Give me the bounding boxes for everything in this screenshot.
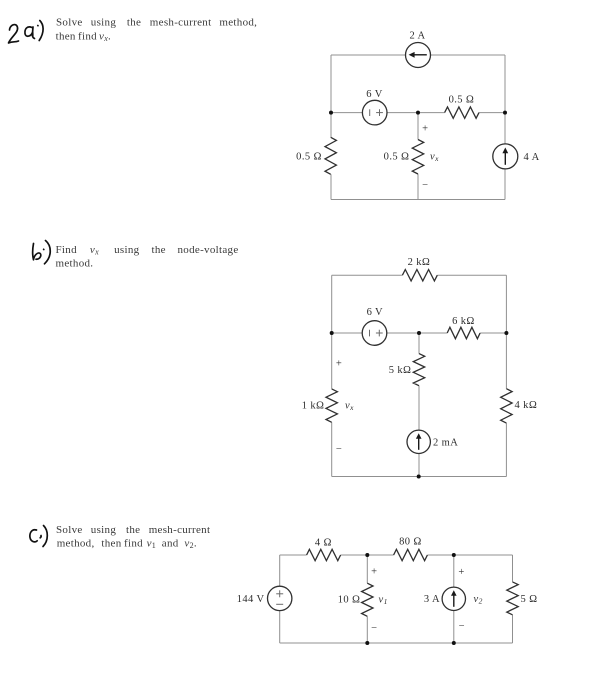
svg-text:+: + bbox=[371, 566, 377, 577]
wire: center branch lower bbox=[417, 174, 419, 200]
svg-text:3 A: 3 A bbox=[424, 594, 440, 605]
wire: top rail left of 2A bbox=[331, 54, 405, 56]
svg-text:10 Ω: 10 Ω bbox=[338, 594, 361, 605]
wire: center branch lower bbox=[418, 453, 420, 476]
wire: branch 3A upper bbox=[453, 555, 455, 587]
resistor 1k (b left, vx) bbox=[302, 358, 354, 455]
wire: top rail right of 2A bbox=[431, 54, 505, 56]
wire: right vertical upper bbox=[504, 55, 506, 144]
resistor 0.5ohm (a, left vertical) bbox=[296, 137, 336, 174]
wire: left vertical upper bbox=[279, 555, 281, 586]
svg-text:5 kΩ: 5 kΩ bbox=[389, 365, 412, 376]
svg-text:4 kΩ: 4 kΩ bbox=[515, 400, 538, 411]
svg-text:method.: method. bbox=[56, 258, 94, 270]
node left middle dot bbox=[329, 111, 333, 115]
resistor 6k (b) bbox=[447, 316, 480, 339]
svg-text:−: − bbox=[422, 180, 428, 191]
svg-text:6 kΩ: 6 kΩ bbox=[452, 316, 475, 327]
voltage source 6V (a) bbox=[362, 89, 387, 125]
resistor 80ohm (c) bbox=[394, 537, 428, 561]
wire: right vertical lower bbox=[512, 615, 514, 643]
svg-text:vx: vx bbox=[345, 401, 354, 413]
svg-text:thenfindvx.: thenfindvx. bbox=[56, 31, 112, 44]
node right middle dot bbox=[503, 111, 507, 115]
resistor 2k (b top) bbox=[402, 257, 437, 281]
node dots top rail (c) bbox=[365, 553, 369, 557]
svg-text:−: − bbox=[459, 621, 465, 632]
wire: middle rail left bbox=[331, 112, 362, 114]
handwritten label 2 a.) bbox=[9, 21, 44, 44]
wire: left vertical upper bbox=[330, 55, 332, 137]
wire: center branch upper bbox=[417, 113, 419, 140]
resistor 0.5ohm (a, center branch, vx) bbox=[384, 124, 439, 191]
svg-text:5 Ω: 5 Ω bbox=[521, 594, 538, 605]
wire: middle rail right bbox=[480, 332, 506, 334]
voltage source 6V (b) bbox=[362, 307, 387, 345]
wire: left vertical upper bbox=[331, 275, 333, 389]
svg-text:4 Ω: 4 Ω bbox=[315, 538, 332, 549]
resistor 4ohm (c) bbox=[307, 538, 341, 561]
wire: top rail seg2 bbox=[341, 554, 394, 556]
wire: branch v1 upper bbox=[366, 555, 368, 583]
svg-text:+: + bbox=[422, 124, 428, 135]
voltage source 144V bbox=[237, 586, 292, 610]
node dots middle rail (b) bbox=[330, 331, 334, 335]
node dots bottom rail (c) bbox=[365, 641, 369, 645]
wire: top rail left of 2k bbox=[332, 274, 403, 276]
wire: right vertical lower bbox=[505, 423, 507, 476]
svg-text:6 V: 6 V bbox=[366, 89, 382, 100]
svg-text:+: + bbox=[458, 567, 464, 578]
wire: left vertical lower bbox=[330, 174, 332, 199]
resistor 5ohm (c right) bbox=[507, 582, 538, 615]
node A middle junction dot bbox=[416, 111, 420, 115]
svg-text:6 V: 6 V bbox=[367, 307, 383, 318]
wire: middle rail left bbox=[332, 332, 363, 334]
wire: branch 3A lower bbox=[453, 610, 455, 643]
svg-text:Solveusingthemesh-current: Solveusingthemesh-current bbox=[56, 524, 210, 536]
current source 2mA bbox=[407, 430, 458, 453]
wire: right vertical upper bbox=[512, 555, 514, 582]
wire: top rail seg1 bbox=[280, 554, 307, 556]
svg-text:1 kΩ: 1 kΩ bbox=[302, 400, 325, 411]
wire: top rail right of 2k bbox=[437, 274, 506, 276]
wire: left vertical lower bbox=[331, 422, 333, 476]
current source 3A (c, v2) bbox=[424, 567, 483, 632]
wire: middle rail center bbox=[387, 112, 445, 114]
wire: bottom rail bbox=[331, 199, 505, 201]
resistor 10ohm (c, v1) bbox=[338, 566, 388, 634]
svg-text:2 A: 2 A bbox=[409, 31, 425, 42]
wire: right vertical upper bbox=[505, 275, 507, 389]
current source 2A bbox=[406, 31, 431, 68]
svg-text:2 kΩ: 2 kΩ bbox=[408, 257, 431, 268]
wire: middle rail right bbox=[479, 112, 505, 114]
svg-text:−: − bbox=[336, 444, 342, 455]
resistor 5k (b center branch) bbox=[389, 354, 425, 386]
svg-text:+: + bbox=[336, 358, 342, 369]
wire: center branch middle bbox=[418, 386, 420, 431]
svg-text:2 mA: 2 mA bbox=[433, 437, 458, 448]
wire: bottom rail bbox=[332, 476, 507, 478]
svg-text:method,thenfindv1 andv2.: method,thenfindv1 andv2. bbox=[57, 538, 197, 551]
wire: right vertical lower bbox=[504, 169, 506, 200]
current source 4A bbox=[493, 144, 540, 169]
resistor 0.5ohm (a, middle-right horizontal) bbox=[445, 95, 479, 119]
svg-text:vx: vx bbox=[430, 151, 439, 163]
wire: middle rail center bbox=[387, 332, 447, 334]
wire: branch v1 lower bbox=[366, 616, 368, 643]
handwritten label b.) bbox=[33, 241, 51, 264]
wire: center branch upper bbox=[418, 333, 420, 354]
wire: top rail seg3 bbox=[427, 554, 512, 556]
svg-text:80 Ω: 80 Ω bbox=[399, 537, 422, 548]
svg-text:0.5 Ω: 0.5 Ω bbox=[384, 152, 410, 163]
svg-text:−: − bbox=[371, 623, 377, 634]
wire: left vertical lower bbox=[279, 611, 281, 643]
node dot bottom rail (b) bbox=[417, 475, 421, 479]
handwritten label c.) bbox=[30, 526, 47, 547]
svg-text:Findvx usingthenode-voltage: Findvx usingthenode-voltage bbox=[56, 244, 239, 257]
svg-text:Solveusingthemesh-currentmetho: Solveusingthemesh-currentmethod, bbox=[56, 17, 257, 29]
wire: bottom rail bbox=[280, 642, 513, 644]
svg-text:4 A: 4 A bbox=[524, 152, 540, 163]
svg-text:v1: v1 bbox=[379, 595, 388, 607]
svg-text:0.5 Ω: 0.5 Ω bbox=[449, 95, 475, 106]
svg-text:0.5 Ω: 0.5 Ω bbox=[296, 152, 322, 163]
svg-text:v2: v2 bbox=[474, 594, 483, 606]
svg-text:144 V: 144 V bbox=[237, 594, 265, 605]
resistor 4k (b right) bbox=[501, 389, 538, 423]
